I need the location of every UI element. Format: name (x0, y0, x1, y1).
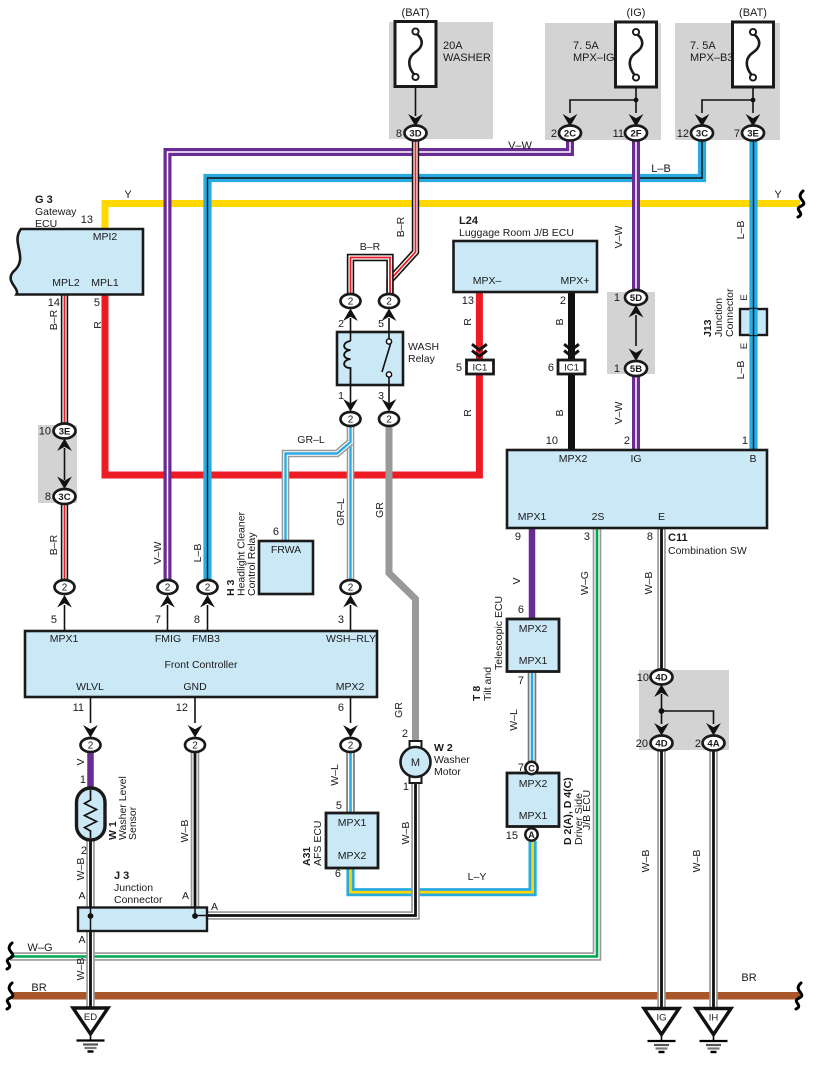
svg-text:MPX2: MPX2 (338, 850, 367, 862)
svg-text:(IG): (IG) (627, 7, 646, 19)
svg-text:V: V (511, 577, 523, 584)
svg-text:V–W: V–W (152, 542, 164, 565)
svg-text:4D: 4D (655, 739, 667, 750)
svg-text:W–B: W–B (75, 858, 87, 881)
svg-text:MPX1: MPX1 (519, 810, 548, 822)
svg-text:W–B: W–B (400, 822, 412, 845)
svg-text:6: 6 (338, 702, 344, 714)
svg-text:MPX1: MPX1 (50, 633, 79, 645)
svg-text:GR: GR (374, 502, 386, 518)
svg-text:3C: 3C (696, 129, 708, 140)
svg-text:A: A (528, 830, 535, 840)
svg-text:2: 2 (81, 845, 87, 857)
svg-text:Motor: Motor (434, 766, 461, 778)
svg-text:4D: 4D (655, 673, 667, 684)
svg-text:W 2: W 2 (434, 742, 453, 754)
svg-text:10: 10 (546, 435, 558, 447)
svg-text:Connector: Connector (114, 894, 163, 906)
svg-text:6: 6 (273, 526, 279, 538)
svg-text:B: B (554, 318, 566, 325)
svg-text:W–L: W–L (329, 764, 341, 786)
svg-text:GR: GR (393, 702, 405, 718)
svg-text:IG: IG (656, 1013, 666, 1024)
svg-text:Gateway: Gateway (35, 206, 77, 218)
svg-text:MPX–B3: MPX–B3 (690, 52, 733, 64)
svg-text:2: 2 (165, 583, 171, 594)
svg-text:L–B: L–B (651, 163, 671, 175)
svg-text:7. 5A: 7. 5A (573, 40, 599, 52)
svg-text:2: 2 (88, 741, 94, 752)
svg-text:1: 1 (614, 363, 620, 375)
svg-text:2C: 2C (564, 129, 576, 140)
svg-text:W–G: W–G (579, 571, 591, 595)
svg-text:WLVL: WLVL (76, 681, 104, 693)
svg-text:Junction: Junction (114, 882, 153, 894)
svg-text:4A: 4A (707, 739, 719, 750)
svg-text:3: 3 (338, 614, 344, 626)
svg-text:3E: 3E (747, 129, 759, 140)
svg-text:2: 2 (205, 583, 211, 594)
svg-text:MPL1: MPL1 (91, 277, 119, 289)
svg-text:V–W: V–W (613, 226, 625, 249)
svg-text:B–R: B–R (48, 534, 60, 555)
svg-text:J 3: J 3 (114, 870, 129, 882)
svg-text:B: B (554, 409, 566, 416)
svg-text:3C: 3C (58, 492, 70, 503)
svg-text:FRWA: FRWA (271, 544, 301, 556)
svg-text:Washer: Washer (434, 754, 470, 766)
svg-text:(BAT): (BAT) (739, 7, 767, 19)
svg-text:Front Controller: Front Controller (165, 659, 238, 671)
svg-text:5B: 5B (630, 364, 642, 375)
svg-text:MPX2: MPX2 (336, 681, 365, 693)
svg-text:2: 2 (348, 415, 354, 426)
svg-text:WASH: WASH (408, 341, 439, 353)
svg-text:W–B: W–B (691, 850, 703, 873)
svg-text:8: 8 (647, 531, 653, 543)
svg-text:(BAT): (BAT) (402, 7, 430, 19)
svg-text:2: 2 (551, 128, 557, 140)
svg-text:Relay: Relay (408, 353, 436, 365)
svg-text:15: 15 (506, 830, 518, 842)
svg-text:W–B: W–B (179, 820, 191, 843)
svg-text:Connector: Connector (724, 288, 736, 337)
svg-text:IG: IG (630, 453, 641, 465)
svg-text:M: M (411, 757, 420, 769)
svg-text:B–R: B–R (395, 216, 407, 237)
svg-text:3D: 3D (409, 129, 421, 140)
svg-text:11: 11 (613, 128, 624, 140)
svg-text:5: 5 (51, 614, 57, 626)
svg-text:MPX1: MPX1 (518, 511, 547, 523)
svg-text:L–Y: L–Y (468, 871, 487, 883)
svg-text:5: 5 (456, 362, 462, 374)
svg-text:V–W: V–W (508, 140, 532, 152)
svg-text:2: 2 (386, 415, 392, 426)
svg-text:5D: 5D (630, 293, 642, 304)
svg-text:7: 7 (518, 675, 524, 687)
svg-text:5: 5 (94, 297, 100, 309)
svg-text:14: 14 (48, 297, 60, 309)
svg-text:6: 6 (335, 868, 341, 880)
svg-text:E: E (739, 343, 750, 349)
svg-text:2: 2 (348, 741, 354, 752)
svg-text:J/B ECU: J/B ECU (581, 790, 593, 830)
svg-text:13: 13 (462, 295, 474, 307)
svg-text:Sensor: Sensor (127, 806, 139, 840)
svg-text:L–B: L–B (735, 361, 747, 380)
svg-text:7: 7 (155, 614, 161, 626)
svg-text:3: 3 (378, 390, 384, 402)
svg-text:2: 2 (192, 741, 198, 752)
svg-text:10: 10 (39, 426, 51, 438)
svg-text:20A: 20A (443, 40, 463, 52)
svg-text:MPX+: MPX+ (561, 275, 590, 287)
svg-text:2: 2 (624, 435, 630, 447)
svg-text:R: R (92, 321, 104, 329)
svg-text:Y: Y (774, 189, 782, 201)
svg-text:A: A (78, 934, 85, 946)
svg-text:7: 7 (518, 762, 524, 774)
svg-text:GR–L: GR–L (297, 434, 325, 446)
svg-text:2: 2 (338, 318, 344, 330)
svg-text:2S: 2S (592, 511, 605, 523)
svg-text:MPX1: MPX1 (519, 655, 548, 667)
svg-text:2: 2 (560, 295, 566, 307)
svg-text:3: 3 (584, 531, 590, 543)
svg-text:2: 2 (695, 738, 701, 750)
svg-text:3E: 3E (59, 427, 71, 438)
svg-text:V–W: V–W (613, 402, 625, 425)
svg-text:IC1: IC1 (564, 363, 579, 374)
svg-text:L–B: L–B (192, 544, 204, 563)
svg-text:GND: GND (183, 681, 207, 693)
svg-text:WSH–RLY: WSH–RLY (326, 633, 376, 645)
svg-text:G 3: G 3 (35, 194, 53, 206)
svg-text:W–L: W–L (508, 709, 520, 731)
svg-text:W–B: W–B (643, 572, 655, 595)
svg-text:2: 2 (386, 297, 392, 308)
svg-text:C: C (528, 763, 535, 773)
svg-text:11: 11 (73, 702, 84, 714)
svg-text:B–R: B–R (48, 309, 60, 330)
svg-text:12: 12 (176, 702, 188, 714)
svg-text:A: A (182, 890, 189, 902)
svg-text:1: 1 (403, 781, 409, 793)
svg-text:MPX2: MPX2 (559, 453, 588, 465)
svg-text:Control Relay: Control Relay (246, 532, 258, 596)
svg-text:V: V (75, 758, 87, 765)
svg-text:E: E (658, 511, 665, 523)
svg-text:12: 12 (677, 128, 689, 140)
svg-text:MPX2: MPX2 (519, 623, 548, 635)
svg-text:W–B: W–B (640, 850, 652, 873)
svg-text:1: 1 (80, 774, 86, 786)
svg-text:2: 2 (62, 583, 68, 594)
svg-text:ED: ED (84, 1012, 97, 1023)
svg-text:A: A (211, 901, 218, 913)
svg-text:20: 20 (636, 738, 648, 750)
svg-text:6: 6 (518, 604, 524, 616)
svg-text:W–G: W–G (27, 942, 52, 954)
svg-text:AFS ECU: AFS ECU (312, 820, 324, 866)
svg-text:R: R (462, 409, 474, 417)
svg-text:L24: L24 (459, 215, 479, 227)
svg-text:7: 7 (734, 128, 740, 140)
svg-text:B–R: B–R (360, 241, 381, 253)
svg-text:BR: BR (741, 972, 756, 984)
svg-text:MPX1: MPX1 (338, 817, 367, 829)
svg-text:Combination SW: Combination SW (668, 545, 747, 557)
svg-text:Luggage Room J/B ECU: Luggage Room J/B ECU (459, 227, 574, 239)
svg-text:MPX2: MPX2 (519, 778, 548, 790)
svg-text:R: R (462, 318, 474, 326)
svg-text:2: 2 (348, 297, 354, 308)
svg-text:Tilt and: Tilt and (482, 667, 494, 701)
svg-text:MPX–IG: MPX–IG (573, 52, 615, 64)
svg-text:W–B: W–B (75, 958, 87, 981)
svg-text:E: E (739, 294, 750, 300)
svg-text:7. 5A: 7. 5A (690, 40, 716, 52)
svg-text:2: 2 (402, 728, 408, 740)
svg-text:B: B (749, 453, 756, 465)
svg-text:A: A (78, 890, 85, 902)
svg-text:10: 10 (637, 672, 649, 684)
svg-text:L–B: L–B (735, 221, 747, 240)
svg-text:2F: 2F (630, 129, 641, 140)
svg-text:GR–L: GR–L (335, 498, 347, 526)
svg-text:MPL2: MPL2 (52, 277, 80, 289)
svg-text:MPX–: MPX– (473, 275, 502, 287)
svg-text:1: 1 (742, 435, 748, 447)
svg-text:FMIG: FMIG (155, 633, 181, 645)
svg-text:ECU: ECU (35, 218, 57, 230)
svg-text:5: 5 (378, 318, 384, 330)
svg-text:8: 8 (396, 128, 402, 140)
svg-text:5: 5 (336, 800, 342, 812)
svg-text:IH: IH (709, 1013, 719, 1024)
svg-text:BR: BR (31, 982, 46, 994)
svg-text:Telescopic ECU: Telescopic ECU (493, 596, 505, 670)
svg-text:1: 1 (338, 390, 344, 402)
svg-text:1: 1 (614, 292, 620, 304)
svg-text:6: 6 (548, 362, 554, 374)
svg-text:8: 8 (45, 491, 51, 503)
svg-text:C11: C11 (668, 532, 688, 544)
svg-text:IC1: IC1 (473, 363, 488, 374)
svg-text:MPI2: MPI2 (93, 231, 118, 243)
svg-text:2: 2 (348, 583, 354, 594)
svg-text:WASHER: WASHER (443, 52, 491, 64)
svg-text:8: 8 (194, 614, 200, 626)
svg-text:FMB3: FMB3 (192, 633, 220, 645)
svg-text:Y: Y (124, 189, 132, 201)
svg-text:13: 13 (81, 214, 93, 226)
svg-text:9: 9 (515, 531, 521, 543)
